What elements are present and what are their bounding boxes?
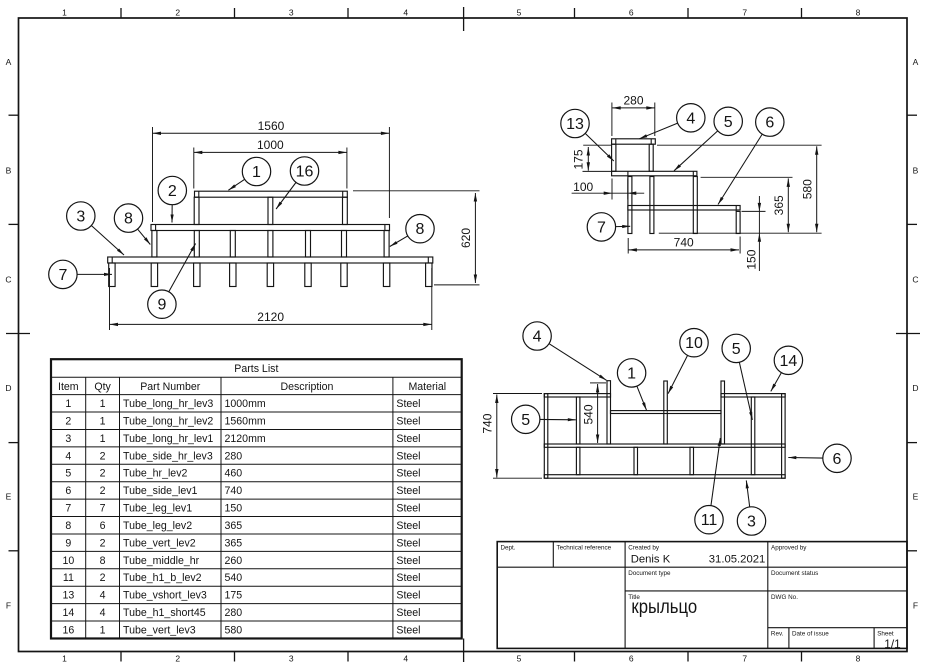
front view tube_long_hr_lev1 (item 3) bbox=[108, 257, 433, 263]
svg-text:Steel: Steel bbox=[396, 555, 420, 567]
svg-text:Steel: Steel bbox=[396, 415, 420, 427]
svg-text:280: 280 bbox=[225, 607, 243, 619]
svg-text:A: A bbox=[913, 57, 919, 67]
svg-text:Tube_h1_b_lev2: Tube_h1_b_lev2 bbox=[123, 572, 202, 584]
svg-text:Steel: Steel bbox=[396, 607, 420, 619]
balloon 5 plan left -> tube_hr_lev2 bbox=[512, 405, 576, 433]
svg-text:1: 1 bbox=[62, 654, 67, 664]
svg-text:Dept.: Dept. bbox=[501, 545, 516, 552]
svg-text:175: 175 bbox=[572, 149, 586, 169]
svg-text:Tube_long_hr_lev3: Tube_long_hr_lev3 bbox=[123, 398, 213, 410]
svg-text:E: E bbox=[6, 492, 12, 502]
balloon 9 -> tube_vert_lev2 bbox=[148, 244, 196, 319]
svg-text:Tube_side_hr_lev3: Tube_side_hr_lev3 bbox=[123, 450, 213, 462]
svg-text:6: 6 bbox=[833, 451, 842, 468]
frame zone ticks right bbox=[896, 115, 920, 551]
parts list row item 3 Tube_long_hr_lev1 bbox=[65, 433, 420, 445]
svg-text:5: 5 bbox=[517, 654, 522, 664]
svg-text:Tube_vshort_lev3: Tube_vshort_lev3 bbox=[123, 590, 207, 602]
plan view left edge tube bbox=[544, 394, 548, 479]
frame row letters right bbox=[912, 57, 918, 610]
parts list row item 10 Tube_middle_hr bbox=[62, 555, 420, 567]
svg-text:Tube_h1_short45: Tube_h1_short45 bbox=[123, 607, 206, 619]
svg-text:Steel: Steel bbox=[396, 503, 420, 515]
plan view divider right full height (item 5) bbox=[751, 397, 755, 475]
svg-text:4: 4 bbox=[65, 450, 71, 462]
plan view right edge tube (item 14) bbox=[782, 394, 786, 479]
frame zone ticks top bbox=[121, 7, 802, 31]
frame column numbers bottom bbox=[62, 654, 861, 664]
svg-text:150: 150 bbox=[745, 249, 759, 269]
svg-text:8: 8 bbox=[856, 8, 861, 18]
front view posts lev3 to lev2 bbox=[194, 197, 347, 224]
svg-text:1: 1 bbox=[100, 433, 106, 445]
parts list row item 16 Tube_vert_lev3 bbox=[62, 624, 420, 636]
svg-text:2: 2 bbox=[100, 572, 106, 584]
svg-text:7: 7 bbox=[742, 8, 747, 18]
svg-text:4: 4 bbox=[403, 8, 408, 18]
plan view bottom edge tube (item 3) bbox=[544, 475, 785, 479]
balloon 7 side -> tube_leg_lev1 bbox=[587, 213, 630, 241]
front view tube_long_hr_lev2 (item 2) bbox=[151, 225, 390, 231]
side view tube_side_lev1 (item 6) bbox=[628, 206, 740, 212]
balloon 11 plan -> tube_h1_b_lev2 bbox=[695, 438, 723, 534]
svg-text:Rev.: Rev. bbox=[771, 631, 784, 638]
svg-text:Steel: Steel bbox=[396, 485, 420, 497]
svg-text:Tube_long_hr_lev1: Tube_long_hr_lev1 bbox=[123, 433, 213, 445]
balloon 1 -> tube_long_hr_lev3 bbox=[228, 157, 270, 190]
svg-text:16: 16 bbox=[296, 164, 314, 181]
plan view top edge left segment bbox=[544, 394, 610, 397]
svg-text:Description: Description bbox=[280, 381, 333, 393]
title block cell labels bbox=[501, 545, 894, 638]
svg-text:10: 10 bbox=[62, 555, 74, 567]
side view tube_vshort_lev3 legs (item 13) bbox=[612, 144, 654, 171]
svg-text:5: 5 bbox=[732, 341, 741, 358]
parts list row item 4 Tube_side_hr_lev3 bbox=[65, 450, 420, 462]
svg-text:Steel: Steel bbox=[396, 590, 420, 602]
parts list row item 7 Tube_leg_lev1 bbox=[65, 503, 420, 515]
svg-text:280: 280 bbox=[225, 450, 243, 462]
side view tube_hr_lev2 (item 5) bbox=[612, 171, 697, 176]
svg-text:1560: 1560 bbox=[258, 119, 285, 133]
svg-text:11: 11 bbox=[63, 572, 74, 584]
side view tube_leg_lev1 (item 7) bbox=[736, 211, 740, 233]
title block sheet value 1/1 bbox=[884, 637, 900, 651]
parts list row item 6 Tube_side_lev1 bbox=[65, 485, 420, 497]
plan view dimension 740 bbox=[481, 394, 543, 479]
svg-text:DWG No.: DWG No. bbox=[771, 594, 798, 601]
title block title value bbox=[631, 596, 697, 617]
balloon 13 -> tube_vshort_lev3 bbox=[561, 109, 614, 161]
svg-text:1: 1 bbox=[627, 365, 636, 382]
front view dimension 1560 bbox=[153, 119, 390, 222]
side view tube_side_hr_lev3 (item 4) bbox=[612, 139, 656, 144]
frame zone ticks bottom bbox=[121, 639, 802, 663]
front view dimension 2120 bbox=[110, 268, 432, 330]
balloon 14 plan -> tube_h1_short45 bbox=[771, 346, 803, 391]
parts list row item 1 Tube_long_hr_lev3 bbox=[65, 398, 420, 410]
svg-text:Tube_middle_hr: Tube_middle_hr bbox=[123, 555, 200, 567]
parts list row item 11 Tube_h1_b_lev2 bbox=[63, 572, 421, 584]
svg-text:2: 2 bbox=[168, 183, 177, 200]
svg-text:4: 4 bbox=[403, 654, 408, 664]
svg-text:Document status: Document status bbox=[771, 570, 818, 577]
svg-text:8: 8 bbox=[100, 555, 106, 567]
parts list row item 13 Tube_vshort_lev3 bbox=[62, 590, 420, 602]
svg-text:Steel: Steel bbox=[396, 624, 420, 636]
svg-text:крыльцо: крыльцо bbox=[631, 596, 697, 617]
svg-text:365: 365 bbox=[225, 520, 243, 532]
svg-text:2: 2 bbox=[175, 8, 180, 18]
title block grid bbox=[497, 542, 907, 649]
front view dimension 1000 bbox=[194, 138, 347, 189]
svg-text:2: 2 bbox=[100, 450, 106, 462]
svg-text:Denis K: Denis K bbox=[631, 554, 671, 566]
plan view divider left upper (item 5) bbox=[576, 397, 580, 444]
svg-text:Document type: Document type bbox=[628, 570, 671, 577]
svg-text:Item: Item bbox=[58, 381, 79, 393]
svg-text:4: 4 bbox=[533, 329, 542, 346]
svg-text:9: 9 bbox=[157, 297, 166, 314]
svg-text:365: 365 bbox=[225, 537, 243, 549]
svg-text:5: 5 bbox=[517, 8, 522, 18]
svg-text:1: 1 bbox=[100, 624, 106, 636]
svg-text:1: 1 bbox=[65, 398, 71, 410]
side view dimension 740 bbox=[628, 235, 740, 253]
svg-text:7: 7 bbox=[100, 503, 106, 515]
svg-text:1560mm: 1560mm bbox=[225, 415, 266, 427]
plan view post right (item 11) bbox=[721, 381, 725, 444]
svg-text:1: 1 bbox=[252, 164, 261, 181]
svg-text:6: 6 bbox=[100, 520, 106, 532]
svg-text:A: A bbox=[6, 57, 12, 67]
svg-text:Steel: Steel bbox=[396, 572, 420, 584]
svg-text:Steel: Steel bbox=[396, 537, 420, 549]
plan view top edge right segment bbox=[721, 394, 785, 397]
plan view post left (item 4) bbox=[607, 381, 611, 444]
svg-text:1: 1 bbox=[62, 8, 67, 18]
svg-text:540: 540 bbox=[225, 572, 243, 584]
svg-text:740: 740 bbox=[674, 235, 694, 249]
svg-text:Qty: Qty bbox=[94, 381, 111, 393]
balloon 5 plan top -> tube_hr_lev2 bbox=[722, 334, 752, 420]
svg-text:Created by: Created by bbox=[628, 545, 660, 552]
svg-text:E: E bbox=[913, 492, 919, 502]
svg-text:280: 280 bbox=[623, 93, 643, 107]
parts list row item 14 Tube_h1_short45 bbox=[62, 607, 420, 619]
svg-text:6: 6 bbox=[629, 654, 634, 664]
svg-text:740: 740 bbox=[225, 485, 243, 497]
svg-text:365: 365 bbox=[772, 195, 786, 215]
svg-text:2: 2 bbox=[100, 485, 106, 497]
svg-text:580: 580 bbox=[800, 179, 814, 199]
svg-text:4: 4 bbox=[100, 607, 106, 619]
svg-text:16: 16 bbox=[62, 624, 74, 636]
parts list table grid bbox=[51, 359, 462, 638]
svg-text:14: 14 bbox=[780, 353, 798, 370]
svg-text:Steel: Steel bbox=[396, 433, 420, 445]
svg-text:6: 6 bbox=[65, 485, 71, 497]
side view dimension 365 bbox=[701, 177, 793, 232]
svg-text:31.05.2021: 31.05.2021 bbox=[709, 554, 766, 566]
balloon 6 plan -> tube_side_lev1 bbox=[788, 444, 851, 472]
svg-text:Date of issue: Date of issue bbox=[792, 631, 829, 638]
svg-text:5: 5 bbox=[521, 412, 530, 429]
svg-text:7: 7 bbox=[58, 267, 67, 284]
svg-text:5: 5 bbox=[65, 468, 71, 480]
svg-text:1/1: 1/1 bbox=[884, 637, 900, 651]
svg-text:3: 3 bbox=[289, 654, 294, 664]
svg-text:Material: Material bbox=[408, 381, 446, 393]
parts list row item 8 Tube_leg_lev2 bbox=[65, 520, 420, 532]
balloon 2 -> tube_long_hr_lev2 bbox=[158, 176, 186, 222]
svg-text:9: 9 bbox=[65, 537, 71, 549]
balloon 6 -> tube_side_lev1 bbox=[718, 108, 784, 205]
frame column numbers top bbox=[62, 8, 861, 18]
plan view dimension 540 bbox=[581, 383, 606, 443]
svg-text:7: 7 bbox=[65, 503, 71, 515]
plan view tube_long_hr_lev3 middle line (item 1) bbox=[611, 411, 722, 414]
side view dimension 150 bbox=[659, 196, 822, 271]
plan view post middle (item 10) bbox=[664, 381, 668, 444]
svg-text:F: F bbox=[913, 600, 918, 610]
svg-text:4: 4 bbox=[100, 590, 106, 602]
svg-text:Tube_leg_lev1: Tube_leg_lev1 bbox=[123, 503, 192, 515]
svg-text:260: 260 bbox=[225, 555, 243, 567]
svg-text:Tube_vert_lev2: Tube_vert_lev2 bbox=[123, 537, 196, 549]
balloon 7 -> tube_leg_lev1 bbox=[49, 260, 112, 288]
svg-text:100: 100 bbox=[573, 180, 593, 194]
svg-text:740: 740 bbox=[481, 413, 495, 433]
svg-text:3: 3 bbox=[289, 8, 294, 18]
balloon 1 plan -> tube_long_hr_lev3 bbox=[617, 359, 646, 411]
svg-text:2120: 2120 bbox=[257, 310, 284, 324]
balloon 3 plan -> tube_long_hr_lev1 bbox=[737, 480, 765, 535]
svg-text:2: 2 bbox=[100, 537, 106, 549]
svg-text:Tube_long_hr_lev2: Tube_long_hr_lev2 bbox=[123, 415, 213, 427]
balloon 4 plan -> tube_side_hr_lev3 bbox=[523, 322, 607, 381]
svg-text:Parts List: Parts List bbox=[234, 363, 278, 375]
svg-text:6: 6 bbox=[765, 115, 774, 132]
svg-text:D: D bbox=[912, 383, 918, 393]
svg-text:150: 150 bbox=[225, 503, 243, 515]
svg-text:13: 13 bbox=[566, 116, 584, 133]
svg-text:5: 5 bbox=[724, 114, 733, 131]
svg-text:7: 7 bbox=[597, 219, 606, 236]
svg-text:11: 11 bbox=[701, 512, 718, 529]
balloon 4 -> tube_side_hr_lev3 bbox=[639, 104, 705, 139]
svg-text:B: B bbox=[913, 166, 919, 176]
svg-text:Tube_vert_lev3: Tube_vert_lev3 bbox=[123, 624, 196, 636]
svg-text:7: 7 bbox=[742, 654, 747, 664]
side view dimension 580 bbox=[657, 145, 822, 232]
front view tube_long_hr_lev3 (item 1) bbox=[195, 191, 348, 197]
svg-text:D: D bbox=[5, 383, 11, 393]
balloon 16 -> tube_vert_lev3 bbox=[276, 157, 319, 209]
front view legs below lev1 (item 7) bbox=[109, 263, 432, 287]
title block created by value Denis K bbox=[631, 554, 671, 566]
svg-text:8: 8 bbox=[65, 520, 71, 532]
svg-text:Tube_hr_lev2: Tube_hr_lev2 bbox=[123, 468, 187, 480]
svg-text:F: F bbox=[6, 600, 11, 610]
side view tube_leg_lev2 legs (item 8) bbox=[628, 177, 697, 234]
frame zone ticks left bbox=[6, 115, 30, 551]
svg-text:Steel: Steel bbox=[396, 450, 420, 462]
front view dimension 620 bbox=[353, 191, 480, 285]
svg-text:1: 1 bbox=[100, 398, 106, 410]
svg-text:8: 8 bbox=[416, 221, 425, 238]
svg-text:2120mm: 2120mm bbox=[225, 433, 266, 445]
svg-text:620: 620 bbox=[459, 228, 473, 248]
svg-text:1000mm: 1000mm bbox=[225, 398, 266, 410]
parts list title bbox=[234, 363, 278, 375]
parts list header row bbox=[58, 381, 446, 393]
title block date value 31.05.2021 bbox=[709, 554, 766, 566]
svg-text:540: 540 bbox=[581, 404, 595, 424]
parts list row item 5 Tube_hr_lev2 bbox=[65, 468, 420, 480]
svg-text:8: 8 bbox=[124, 211, 133, 228]
plan view bottom dividers (item 10) bbox=[576, 447, 693, 474]
side view dimension 100 bbox=[572, 179, 645, 200]
svg-text:13: 13 bbox=[62, 590, 74, 602]
svg-text:8: 8 bbox=[856, 654, 861, 664]
balloon 10 plan -> tube_middle_hr bbox=[668, 329, 708, 394]
svg-text:Technical reference: Technical reference bbox=[557, 545, 612, 552]
svg-text:C: C bbox=[912, 274, 918, 284]
svg-text:1: 1 bbox=[100, 415, 106, 427]
svg-text:Steel: Steel bbox=[396, 520, 420, 532]
svg-text:Steel: Steel bbox=[396, 398, 420, 410]
balloon 8 right -> tube_leg_lev2 bbox=[390, 215, 434, 247]
svg-text:175: 175 bbox=[225, 590, 243, 602]
svg-text:3: 3 bbox=[76, 209, 85, 226]
balloon 5 -> tube_hr_lev2 bbox=[674, 107, 742, 171]
svg-text:580: 580 bbox=[225, 624, 243, 636]
svg-text:C: C bbox=[5, 274, 11, 284]
svg-text:Tube_side_lev1: Tube_side_lev1 bbox=[123, 485, 198, 497]
svg-text:Part Number: Part Number bbox=[140, 381, 201, 393]
svg-text:4: 4 bbox=[686, 110, 695, 127]
side view dimension 175 bbox=[572, 145, 612, 171]
parts list row item 2 Tube_long_hr_lev2 bbox=[65, 415, 420, 427]
svg-text:460: 460 bbox=[225, 468, 243, 480]
balloon 3 -> tube_long_hr_lev1 bbox=[67, 202, 124, 255]
svg-text:3: 3 bbox=[65, 433, 71, 445]
plan view middle horizontal tube bbox=[544, 444, 785, 447]
svg-text:2: 2 bbox=[65, 415, 71, 427]
svg-text:6: 6 bbox=[629, 8, 634, 18]
svg-text:Steel: Steel bbox=[396, 468, 420, 480]
svg-text:2: 2 bbox=[100, 468, 106, 480]
balloon 8 left -> tube_leg_lev2 bbox=[114, 204, 150, 245]
svg-text:Tube_leg_lev2: Tube_leg_lev2 bbox=[123, 520, 192, 532]
parts list row item 9 Tube_vert_lev2 bbox=[65, 537, 420, 549]
svg-text:10: 10 bbox=[685, 335, 703, 352]
svg-text:14: 14 bbox=[62, 607, 74, 619]
frame row letters left bbox=[5, 57, 11, 610]
svg-text:1000: 1000 bbox=[257, 138, 284, 152]
front view legs lev2 to lev1 (items 8,9) bbox=[152, 231, 389, 258]
side view dimension 280 bbox=[612, 93, 655, 136]
svg-text:3: 3 bbox=[747, 514, 756, 531]
svg-text:B: B bbox=[6, 166, 12, 176]
svg-text:2: 2 bbox=[175, 654, 180, 664]
svg-text:Approved by: Approved by bbox=[771, 545, 807, 552]
